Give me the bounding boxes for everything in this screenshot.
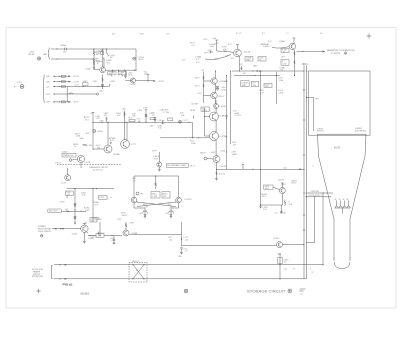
heater bus 2 bbox=[54, 278, 307, 279]
svg-text:42.5V: 42.5V bbox=[334, 147, 341, 150]
svg-text:(0.0?): (0.0?) bbox=[17, 82, 22, 84]
pvb title bbox=[63, 282, 74, 286]
svg-text:1.0: 1.0 bbox=[119, 74, 122, 76]
relay K601 bbox=[129, 261, 147, 282]
svg-text:+0R2: +0R2 bbox=[46, 81, 50, 83]
svg-text:5.0k: 5.0k bbox=[289, 204, 292, 206]
diode CR641 bbox=[179, 120, 188, 123]
diode D602 at node bbox=[133, 49, 144, 70]
circled cross mark 2 bbox=[288, 289, 292, 293]
left low wire y188.6 bbox=[67, 188, 115, 189]
right bus pair bbox=[302, 64, 307, 279]
svg-text:R.?: R.? bbox=[262, 33, 265, 35]
svg-text:R.0?: R.0? bbox=[140, 34, 144, 36]
cross labels bbox=[143, 204, 173, 209]
svg-text:50.2?: 50.2? bbox=[195, 78, 200, 80]
power bus source bbox=[14, 82, 24, 88]
diode pair D621 bbox=[216, 86, 226, 91]
svg-text:0.1?: 0.1? bbox=[196, 62, 200, 64]
transistor Q602 bbox=[125, 78, 136, 86]
svg-text:+.?: +.? bbox=[312, 165, 315, 167]
label R616 bbox=[280, 66, 286, 71]
svg-text:1.120?: 1.120? bbox=[110, 81, 116, 83]
resistor R601 1.5M bbox=[93, 50, 102, 56]
output arrow +100V bbox=[136, 80, 165, 83]
svg-text:7.5k: 7.5k bbox=[158, 128, 161, 130]
bus ticks bbox=[303, 90, 307, 230]
svg-text:24.7: 24.7 bbox=[110, 57, 114, 59]
sensitivity correction text bbox=[327, 50, 355, 55]
transistor Q634 bbox=[121, 122, 137, 148]
svg-text:10.5?: 10.5? bbox=[46, 94, 51, 96]
boxed label pair mid row bbox=[241, 81, 250, 87]
resistor chain R614 bbox=[294, 50, 295, 77]
svg-text:0.5?: 0.5? bbox=[182, 60, 186, 62]
lower electrode label bbox=[355, 128, 367, 132]
long net wire A bbox=[260, 71, 269, 211]
capacitor C602 bbox=[124, 70, 126, 78]
svg-text:+.50?: +.50? bbox=[281, 184, 286, 186]
svg-text:- ? -: - ? - bbox=[309, 269, 313, 271]
ladder vertical tie bbox=[66, 87, 68, 102]
svg-text:L.0?5: L.0?5 bbox=[143, 108, 148, 110]
svg-text:10k: 10k bbox=[169, 239, 172, 241]
boxed label R671 bbox=[66, 191, 86, 199]
svg-text:4P: 4P bbox=[339, 199, 341, 201]
svg-text:1k: 1k bbox=[259, 60, 261, 62]
emitter wire y169 bbox=[216, 163, 304, 170]
svg-text:R.5?: R.5? bbox=[96, 118, 100, 120]
boxed label R656 bbox=[99, 196, 112, 200]
label 142k bbox=[80, 138, 84, 140]
node R pullup bbox=[144, 72, 150, 82]
svg-text:0R0.5?: 0R0.5? bbox=[200, 153, 206, 155]
svg-text:+1.0?: +1.0? bbox=[197, 93, 202, 95]
Q633 connections bbox=[93, 122, 109, 149]
diode string CR671 bbox=[74, 189, 90, 225]
power ladder bracket bbox=[42, 75, 45, 104]
svg-text:DRA520 0.R: DRA520 0.R bbox=[63, 154, 74, 157]
svg-text:(.37?: (.37? bbox=[144, 73, 148, 75]
transistor Q675 bbox=[278, 180, 285, 194]
transistor Q614 bbox=[279, 41, 296, 50]
svg-text:+100: +100 bbox=[212, 38, 216, 40]
ground G645 bbox=[158, 167, 161, 171]
capacitor C611 bbox=[209, 44, 216, 48]
wire y211.3 bbox=[61, 209, 86, 212]
svg-text:4.7?: 4.7? bbox=[152, 115, 156, 117]
svg-text:1.50k: 1.50k bbox=[279, 93, 283, 95]
svg-text:+ 81?V: + 81?V bbox=[73, 102, 80, 104]
resistor R603 bbox=[93, 49, 104, 56]
svg-text:L.00?M: L.00?M bbox=[220, 106, 226, 108]
svg-text:C.5R.AB: C.5R.AB bbox=[220, 115, 229, 118]
svg-text:10R.5?: 10R.5? bbox=[122, 215, 128, 217]
svg-text:+.05: +.05 bbox=[153, 183, 157, 185]
boxed label counter bbox=[264, 83, 272, 88]
Q675 emitter network bbox=[260, 194, 292, 207]
svg-text:C56: C56 bbox=[63, 51, 66, 53]
svg-text:R.R0.8?: R.R0.8? bbox=[317, 131, 324, 133]
svg-text:4.70k: 4.70k bbox=[221, 89, 225, 91]
label C5R bbox=[60, 202, 65, 204]
svg-text:0R0.? R.0?: 0R0.? R.0? bbox=[49, 211, 58, 213]
capacitor C601 bbox=[60, 45, 67, 53]
node bus y71 bbox=[232, 70, 304, 74]
wire Q601 to node bbox=[106, 70, 137, 71]
transistor Q633 bbox=[104, 145, 120, 156]
svg-text:1k??: 1k?? bbox=[95, 220, 99, 222]
svg-text:L.8R8w: L.8R8w bbox=[60, 45, 67, 47]
boxed label bus top bbox=[303, 64, 308, 66]
input pin P636 bbox=[69, 159, 77, 162]
svg-text:R0.?: R0.? bbox=[265, 188, 269, 190]
svg-text:p/o 0.R? 0.5: p/o 0.R? 0.5 bbox=[93, 170, 103, 172]
svg-text:L.R??: L.R?? bbox=[152, 150, 157, 152]
resistor R633 bbox=[73, 144, 101, 149]
diode D642 bbox=[151, 113, 156, 123]
svg-text:240?: 240? bbox=[100, 91, 104, 93]
svg-text:+.10?: +.10? bbox=[242, 73, 247, 75]
resistor R611 bbox=[222, 47, 227, 51]
flip-flop top rail bbox=[133, 176, 179, 197]
varistor V651 bbox=[134, 203, 148, 219]
feed pin x93 bbox=[90, 113, 94, 115]
svg-text:R.L?: R.L? bbox=[263, 209, 267, 211]
svg-text:1k: 1k bbox=[134, 180, 136, 182]
Q671 emitter ground bbox=[83, 232, 96, 243]
heater pins bbox=[335, 199, 349, 206]
svg-text:C.0?M: C.0?M bbox=[220, 136, 227, 138]
bus component box bbox=[306, 97, 319, 131]
svg-text:0.R?: 0.R? bbox=[204, 53, 208, 55]
resistor R642 bbox=[104, 113, 109, 122]
transistor Q621 bbox=[204, 78, 228, 84]
heater supply text bbox=[32, 269, 43, 278]
svg-text:1.00k: 1.00k bbox=[191, 143, 195, 145]
strobe input label bbox=[195, 55, 231, 61]
label A bbox=[282, 56, 286, 59]
misc labels mid-top bbox=[196, 53, 234, 64]
svg-text:R0.?: R0.? bbox=[262, 196, 266, 198]
varistor V653 bbox=[165, 203, 179, 219]
svg-text:R.??: R.?? bbox=[95, 204, 99, 206]
pullup R631 bbox=[122, 109, 126, 141]
svg-text:P?: P? bbox=[14, 86, 16, 88]
svg-text:1.0R00.?: 1.0R00.? bbox=[263, 46, 270, 48]
svg-text:1.0?: 1.0? bbox=[225, 56, 229, 58]
svg-text:C.0?0?: C.0?0? bbox=[185, 199, 193, 201]
svg-text:R0?: R0? bbox=[265, 86, 268, 88]
label L8R bbox=[239, 64, 257, 70]
net pair mid verticals bbox=[226, 70, 231, 169]
boxed label net pair bbox=[201, 107, 209, 112]
svg-text:1.21?: 1.21? bbox=[117, 219, 122, 221]
transistor Q612 bbox=[217, 49, 251, 57]
svg-text:+R0?: +R0? bbox=[130, 223, 134, 225]
bottom bus small labels bbox=[309, 269, 314, 274]
svg-text:L.0R.?: L.0R.? bbox=[211, 152, 216, 154]
labels on net pair bbox=[231, 111, 241, 156]
svg-text:+0.5M: +0.5M bbox=[220, 151, 226, 153]
wire bias row bbox=[112, 70, 123, 76]
svg-text:4.0: 4.0 bbox=[284, 262, 287, 264]
ladder row 1 bbox=[46, 75, 80, 78]
svg-text:+ 1.2?: + 1.2? bbox=[74, 85, 79, 87]
svg-text:(R.1.7: (R.1.7 bbox=[219, 96, 226, 98]
svg-text:C.??: C.?? bbox=[131, 144, 136, 146]
transistor Q644 bbox=[210, 132, 227, 141]
svg-text:4P: 4P bbox=[343, 199, 345, 201]
svg-text:.5?: .5? bbox=[300, 294, 303, 296]
svg-text:R0?: R0? bbox=[315, 98, 318, 100]
svg-text:5R.2B: 5R.2B bbox=[190, 110, 196, 112]
label cluster 2 bbox=[116, 113, 121, 117]
label on net B bbox=[278, 78, 283, 82]
lower electrode text bbox=[38, 226, 51, 237]
crt faceplate line bbox=[318, 133, 367, 135]
svg-text:1.0?: 1.0? bbox=[166, 34, 170, 36]
supply pin +100 bbox=[212, 38, 218, 51]
svg-text:+.5?: +.5? bbox=[201, 70, 205, 72]
svg-text:+ 1.5?V: + 1.5?V bbox=[73, 81, 80, 83]
svg-text:C.5R?: C.5R? bbox=[60, 202, 65, 204]
svg-text:30.1k: 30.1k bbox=[139, 59, 143, 61]
label L88 bbox=[99, 121, 104, 123]
boxed label pair L2 bbox=[258, 57, 266, 62]
svg-text:1 ?: 1 ? bbox=[293, 268, 296, 270]
svg-text:4.70?: 4.70? bbox=[208, 50, 213, 52]
svg-text:+.05: +.05 bbox=[84, 222, 88, 224]
transistor Q638 bbox=[61, 163, 81, 185]
svg-text:0R6.5: 0R6.5 bbox=[152, 193, 157, 195]
threshold circuit note bbox=[89, 167, 109, 171]
svg-text:142k: 142k bbox=[80, 138, 84, 140]
svg-text:+.0?: +.0? bbox=[165, 213, 169, 215]
svg-text:4P: 4P bbox=[347, 199, 349, 201]
wire top input bbox=[51, 48, 136, 49]
vertical x192 bbox=[191, 104, 198, 138]
svg-text:R.5?: R.5? bbox=[154, 158, 158, 160]
svg-text:811/815: 811/815 bbox=[81, 293, 90, 296]
cathode drop wire bbox=[306, 196, 315, 242]
resistor R602 2.2M bbox=[93, 55, 102, 69]
svg-text:??k: ??k bbox=[280, 70, 283, 72]
ladder row 2 bbox=[46, 81, 80, 84]
crt bulb sides bbox=[318, 134, 367, 156]
svg-text:78k?: 78k? bbox=[246, 60, 250, 62]
svg-text:ELECTRODE: ELECTRODE bbox=[355, 130, 367, 132]
Q chain verticals bbox=[215, 100, 217, 156]
labels under counter bbox=[260, 90, 284, 95]
transistor Q623 bbox=[204, 92, 226, 98]
transistor Q646 bbox=[213, 151, 227, 169]
svg-text:C.5?: C.5? bbox=[137, 119, 141, 121]
svg-text:1.0?: 1.0? bbox=[233, 144, 237, 146]
wire lower input bbox=[51, 58, 94, 59]
svg-text:+.0?: +.0? bbox=[274, 213, 278, 215]
svg-text:0.5?: 0.5? bbox=[112, 34, 116, 36]
svg-text:1.50k: 1.50k bbox=[279, 80, 283, 82]
bottom plus mark bbox=[36, 289, 40, 293]
svg-text:SENSITIVITY CORRECTION: SENSITIVITY CORRECTION bbox=[327, 50, 355, 52]
svg-text:1.0?: 1.0? bbox=[117, 115, 121, 117]
svg-text:+180: +180 bbox=[122, 109, 126, 111]
svg-text:+??: +?? bbox=[184, 251, 187, 253]
svg-text:(.?0.5?: (.?0.5? bbox=[55, 163, 61, 165]
svg-text:1.0.1: 1.0.1 bbox=[283, 167, 287, 169]
resistor R634 bbox=[109, 137, 116, 144]
svg-text:L.?: L.? bbox=[286, 33, 289, 35]
wire Q601 collector to top bbox=[102, 49, 104, 67]
registration mark top right bbox=[367, 34, 372, 39]
center divider R bbox=[153, 176, 157, 190]
label on bus bbox=[312, 165, 315, 167]
svg-text:R0.5?: R0.5? bbox=[292, 183, 297, 185]
diode D641 bbox=[143, 108, 148, 123]
base wire into Q655 bbox=[88, 234, 122, 243]
svg-text:1.7 10k: 1.7 10k bbox=[163, 112, 169, 114]
grid drop wire bbox=[322, 192, 323, 265]
label cluster wire y122 left bbox=[96, 116, 101, 120]
svg-text:+ 0.5?V: + 0.5?V bbox=[73, 76, 80, 78]
Q614 collector pin bbox=[293, 38, 296, 44]
transistor Q655 bbox=[123, 222, 138, 236]
Q621 Q623 verticals bbox=[215, 70, 216, 104]
heater resistor stack bbox=[278, 254, 295, 279]
emitter jog to junction bbox=[129, 222, 188, 246]
svg-text:C.0.89P: C.0.89P bbox=[129, 84, 136, 86]
svg-text:L.9?: L.9? bbox=[149, 113, 153, 115]
diode CR631 bbox=[93, 130, 103, 134]
svg-text:R.0?: R.0? bbox=[86, 133, 90, 135]
svg-text:L.88?: L.88? bbox=[99, 121, 104, 123]
diode D601 bbox=[93, 48, 116, 62]
svg-text:.5?: .5? bbox=[311, 272, 314, 274]
boxed label E2 bbox=[118, 72, 126, 76]
svg-text:1.00M: 1.00M bbox=[232, 154, 237, 156]
svg-text:R0: R0 bbox=[141, 194, 143, 196]
svg-text:0.R5&?: 0.R5&? bbox=[280, 213, 286, 215]
left edge labels bbox=[121, 212, 134, 224]
capacitor C655 bbox=[113, 236, 116, 244]
svg-text:(FROM T601): (FROM T601) bbox=[32, 276, 43, 278]
center bus wire y122 bbox=[93, 122, 192, 123]
boxed label FF1 bbox=[151, 192, 160, 199]
resistor R641 bbox=[129, 118, 136, 122]
svg-text:4P: 4P bbox=[335, 199, 337, 201]
svg-text:(R.L?: (R.L? bbox=[190, 165, 194, 167]
svg-text:1.0??: 1.0?? bbox=[203, 39, 208, 41]
svg-text:50R?: 50R? bbox=[242, 85, 246, 87]
vertical feed x93 bbox=[92, 113, 95, 151]
transistor Q601 bbox=[85, 58, 106, 73]
long net wire B bbox=[276, 72, 278, 104]
svg-text:47.0?: 47.0? bbox=[195, 86, 200, 88]
crt label 42.5V bbox=[334, 147, 341, 150]
svg-text:1.0?: 1.0? bbox=[260, 92, 264, 94]
misc top-left of crt labels bbox=[182, 43, 195, 62]
svg-text:TO R10?5: TO R10?5 bbox=[331, 53, 341, 55]
svg-text:R?5: R?5 bbox=[163, 196, 166, 198]
svg-text:Q.50?: Q.50? bbox=[274, 238, 281, 240]
label cluster 5 bbox=[75, 110, 163, 138]
svg-text:PVB &1: PVB &1 bbox=[63, 282, 74, 286]
svg-text:C.R5.PB: C.R5.PB bbox=[219, 166, 227, 168]
svg-text:Q.88#: Q.88# bbox=[279, 41, 286, 43]
heater bus 1 bbox=[54, 264, 323, 265]
node bus y75.6 bbox=[234, 75, 280, 76]
center labels row bbox=[162, 110, 196, 121]
label cluster 3 bbox=[132, 114, 136, 118]
capacitor C657 bbox=[178, 248, 187, 259]
boxed label DRA520 bbox=[62, 152, 76, 157]
svg-text:1.08?: 1.08? bbox=[93, 81, 98, 83]
no internal connection box bbox=[167, 164, 195, 168]
label cluster 4 bbox=[138, 110, 143, 112]
pin P651 bbox=[136, 192, 143, 196]
ground G675 bbox=[274, 205, 286, 215]
svg-text:R.5?: R.5? bbox=[231, 58, 235, 60]
crt neck bbox=[334, 219, 350, 269]
svg-text:+.0k: +.0k bbox=[184, 239, 188, 241]
boxed label R615 bbox=[281, 49, 289, 54]
svg-text:STORAGE CIRCUIT: STORAGE CIRCUIT bbox=[247, 290, 286, 294]
svg-text:47.3: 47.3 bbox=[85, 119, 89, 121]
svg-text:+0R1: +0R1 bbox=[46, 102, 50, 104]
svg-text:1k: 1k bbox=[283, 51, 285, 53]
svg-text:7.0k: 7.0k bbox=[181, 115, 184, 117]
svg-text:4.0?: 4.0? bbox=[268, 41, 272, 43]
transistor Q643 bbox=[210, 112, 229, 121]
input connector J1 FROM TRIG bbox=[29, 48, 50, 61]
svg-text:+.0?: +.0? bbox=[139, 213, 143, 215]
diode D611 bbox=[208, 50, 219, 61]
capacitor C641 bbox=[137, 119, 141, 123]
svg-text:+86?: +86? bbox=[302, 64, 306, 66]
Q612 emitter wire bbox=[239, 56, 240, 72]
title storage circuit bbox=[247, 290, 286, 294]
flood gun heaters bbox=[335, 206, 351, 213]
svg-text:1.5k: 1.5k bbox=[253, 85, 256, 87]
wire to Q661 bbox=[182, 244, 277, 246]
label cluster Q601 bbox=[106, 60, 112, 64]
svg-text:1.0.5?: 1.0.5? bbox=[61, 183, 66, 185]
svg-text:L.0?5: L.0?5 bbox=[97, 235, 102, 237]
svg-text:R.?5 1k: R.?5 1k bbox=[219, 173, 225, 175]
left center labels bbox=[149, 113, 164, 130]
svg-text:L0.5 R0?: L0.5 R0? bbox=[191, 104, 198, 106]
stack mark bbox=[300, 289, 306, 296]
svg-text:K60.1??: K60.1?? bbox=[133, 261, 140, 263]
bracket bbox=[52, 266, 53, 279]
base column x204.7 bbox=[204, 108, 209, 136]
ladder row 3 bbox=[46, 85, 111, 89]
svg-text:C.75.08: C.75.08 bbox=[84, 162, 90, 164]
svg-text:50k: 50k bbox=[133, 116, 136, 118]
node label A63 bbox=[84, 116, 89, 121]
svg-text:+.1?: +.1? bbox=[90, 113, 94, 115]
svg-text:+0R7: +0R7 bbox=[46, 76, 50, 78]
svg-text:+ 10??: + 10?? bbox=[158, 81, 165, 83]
sensitivity correction wire bbox=[297, 51, 325, 52]
svg-text:47k: 47k bbox=[104, 115, 107, 117]
base bus y137.8 bbox=[160, 137, 210, 145]
boxed label A608 bbox=[83, 81, 89, 85]
svg-text:C.94C: C.94C bbox=[85, 68, 91, 70]
labels near x93 bbox=[93, 189, 100, 222]
svg-text:L.R5?: L.R5? bbox=[138, 110, 143, 112]
